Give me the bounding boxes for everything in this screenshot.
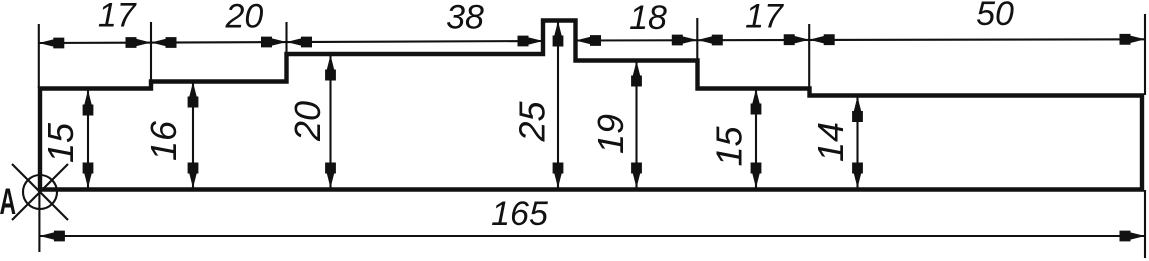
svg-text:38: 38 xyxy=(446,0,484,37)
vertical dimension line 20 (x=330.5) xyxy=(329,55,331,188)
svg-text:17: 17 xyxy=(745,0,784,36)
arrow up 20 xyxy=(325,55,336,81)
extension line left (x=38.8) xyxy=(38,24,40,88)
arrow down 15 xyxy=(83,163,94,189)
arrow up 25 xyxy=(553,21,564,47)
datum diagonal line NE-SW xyxy=(12,164,68,220)
arrow right end of 20 xyxy=(261,37,287,48)
svg-text:20: 20 xyxy=(287,101,328,142)
arrow right end of 38 xyxy=(518,36,544,47)
svg-text:14: 14 xyxy=(810,122,851,162)
vertical dimension line 25 (x=558) xyxy=(557,21,559,188)
arrow left end of 20 xyxy=(151,37,177,48)
arrow down 25 xyxy=(553,163,564,189)
svg-text:25: 25 xyxy=(512,101,553,143)
arrow left end of second 17 xyxy=(697,35,723,46)
arrow right end of 165 xyxy=(1120,231,1146,242)
bottom dimension line (165) xyxy=(39,235,1145,237)
vertical dimension line 15 (x=88) xyxy=(87,90,89,188)
part profile outline (stepped shaft contour) xyxy=(40,21,1142,190)
arrow up 15 xyxy=(83,90,94,116)
arrow right end of 50 xyxy=(1120,34,1146,45)
arrow up second 15 xyxy=(751,89,762,115)
arrow left end of 165 xyxy=(39,231,65,242)
svg-text:50: 50 xyxy=(976,0,1014,33)
arrow up 14 xyxy=(852,97,863,123)
extension line right (x=1142.6) xyxy=(1144,14,1146,95)
svg-text:19: 19 xyxy=(590,114,631,154)
svg-text:15: 15 xyxy=(709,126,750,167)
extension line 18|17 (x=697.3) xyxy=(696,18,698,60)
arrow left end of 38 xyxy=(287,37,313,48)
arrow up 19 xyxy=(631,61,642,87)
arrow down 19 xyxy=(631,163,642,189)
arrow right end of 17 xyxy=(126,37,152,48)
vertical dimension line 14 (x=857.5) xyxy=(856,97,858,189)
vertical dimension line second 15 (x=756) xyxy=(755,89,757,188)
arrow down 20 xyxy=(325,163,336,189)
arrow left end of 17 xyxy=(39,38,65,49)
vertical dimension line 19 (x=636.5) xyxy=(635,61,637,188)
svg-text:165: 165 xyxy=(491,195,548,233)
arrow down second 15 xyxy=(751,163,762,189)
arrow up 16 xyxy=(188,82,199,108)
arrow right end of 18 xyxy=(672,35,698,46)
arrow left end of 18 xyxy=(576,35,602,46)
svg-text:17: 17 xyxy=(98,0,137,35)
svg-text:20: 20 xyxy=(224,0,263,36)
vertical dimension line 16 (x=193) xyxy=(192,82,194,188)
svg-text:15: 15 xyxy=(40,122,81,163)
datum diagonal line NW-SE xyxy=(12,164,68,220)
extension line 17|50 (x=809.2) xyxy=(808,24,810,88)
arrow right end of second 17 xyxy=(784,34,810,45)
datum target circle at corner A xyxy=(23,175,57,209)
svg-text:A: A xyxy=(0,180,16,222)
top dimension line, left part (17,20,38) xyxy=(39,41,543,43)
top dimension line, right part (18,17,50) xyxy=(576,39,1146,40)
extension line 17|20 (x=151) xyxy=(150,22,152,81)
extension line 20|38 (x=286.5) xyxy=(285,22,287,54)
extension line bottom-left (x=39.4) xyxy=(38,190,40,252)
arrow down 14 xyxy=(852,163,863,189)
svg-text:18: 18 xyxy=(629,0,667,37)
extension line bottom-right (x=1143) xyxy=(1144,190,1146,258)
svg-text:16: 16 xyxy=(143,120,184,161)
arrow down 16 xyxy=(188,163,199,189)
arrow left end of 50 xyxy=(809,34,835,45)
